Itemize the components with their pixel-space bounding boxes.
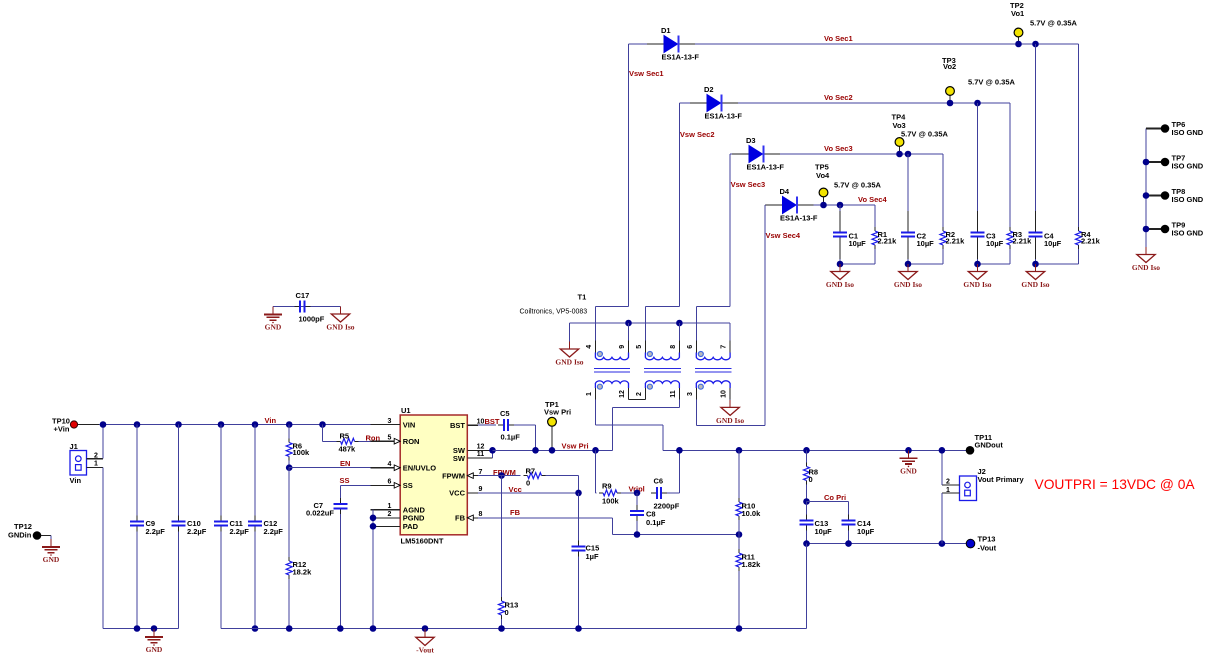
wire -Vout bottom row <box>807 543 967 545</box>
resistor R5 487k <box>319 421 326 428</box>
testpoint TP6 ISO GND <box>1161 124 1170 133</box>
svg-text:Vo Sec2: Vo Sec2 <box>824 93 853 102</box>
testpoint TP10 +Vin <box>70 421 77 428</box>
capacitor C1 10uF <box>837 202 844 209</box>
svg-text:SW: SW <box>453 454 466 463</box>
svg-text:2.2µF: 2.2µF <box>146 527 166 536</box>
svg-text:10µF: 10µF <box>917 239 935 248</box>
transformer core <box>594 368 630 370</box>
svg-text:FB: FB <box>510 508 521 517</box>
wire output bottom <box>1036 263 1079 265</box>
wire J1 pin1 to GND rail <box>87 466 104 468</box>
wire SS <box>340 484 370 486</box>
testpoint TP8 ISO GND <box>1146 195 1161 197</box>
svg-text:Vsw Sec3: Vsw Sec3 <box>731 180 766 189</box>
svg-text:1: 1 <box>94 460 98 467</box>
svg-text:2.21k: 2.21k <box>1081 237 1101 246</box>
transformer core <box>695 368 732 370</box>
svg-text:Ron: Ron <box>366 434 381 443</box>
svg-text:10µF: 10µF <box>815 527 833 536</box>
testpoint TP5 Vo4 <box>823 197 825 206</box>
resistor R13 0 <box>501 476 503 597</box>
svg-text:8: 8 <box>670 345 677 349</box>
testpoint TP4 Vo3 <box>899 146 901 154</box>
svg-text:2200pF: 2200pF <box>654 501 680 510</box>
capacitor C5 0.1uF BST <box>478 424 496 426</box>
svg-text:Vin: Vin <box>265 416 277 425</box>
svg-text:18.2k: 18.2k <box>293 568 313 577</box>
pin PAD PAD <box>371 525 401 527</box>
svg-text:C17: C17 <box>296 291 310 300</box>
svg-text:T1: T1 <box>578 293 587 302</box>
ground GND input <box>151 625 158 632</box>
svg-text:1µF: 1µF <box>586 552 599 561</box>
capacitor C4 10uF <box>1032 41 1039 48</box>
wire pin8 rail <box>678 323 680 341</box>
pin 8 FB <box>467 517 478 519</box>
svg-text:1.82k: 1.82k <box>742 560 762 569</box>
wire step Vsw Sec2 to pin5 <box>645 305 679 307</box>
svg-text:0.1µF: 0.1µF <box>501 432 521 441</box>
resistor R10 10.0k <box>736 447 743 454</box>
svg-text:Vo1: Vo1 <box>1011 9 1024 18</box>
svg-text:Vo Sec1: Vo Sec1 <box>824 34 853 43</box>
pin 2 PGND <box>371 517 401 519</box>
svg-text:R7: R7 <box>526 466 536 475</box>
wire Vo Sec4 horizontal <box>764 204 767 206</box>
wire Vo Sec1 horizontal <box>629 43 648 45</box>
svg-text:2.21k: 2.21k <box>946 237 966 246</box>
ground GND Iso <box>839 264 841 272</box>
wire AGND PGND PAD to rail <box>372 510 374 629</box>
svg-text:GND: GND <box>43 555 60 564</box>
wire pin9 rail <box>628 323 630 341</box>
svg-text:Vo Sec3: Vo Sec3 <box>824 144 853 153</box>
pin 10 BST <box>467 424 478 426</box>
svg-text:12: 12 <box>619 390 626 398</box>
testpoint TP7 ISO GND <box>1146 161 1161 163</box>
pin 12 SW <box>467 449 478 451</box>
wire C17 link <box>273 306 341 308</box>
capacitor C9 2.2uF <box>134 421 141 428</box>
svg-text:10.0k: 10.0k <box>742 509 762 518</box>
wire SW pins join <box>478 449 493 451</box>
wire output bottom <box>840 263 875 265</box>
svg-text:GND Iso: GND Iso <box>555 358 583 367</box>
testpoint TP11 GNDout <box>966 446 975 455</box>
ground GND Iso transformer left <box>569 323 571 342</box>
svg-text:TP13: TP13 <box>978 534 996 543</box>
svg-text:10µF: 10µF <box>1044 239 1062 248</box>
svg-text:ISO GND: ISO GND <box>1172 195 1204 204</box>
ground GND Iso <box>977 264 979 272</box>
diode D4 <box>783 197 797 214</box>
svg-text:12: 12 <box>477 444 485 451</box>
svg-text:0.022uF: 0.022uF <box>306 508 334 517</box>
ground GND Iso chain <box>1145 247 1147 255</box>
wire Vsw Pri <box>493 449 613 451</box>
ground GND Iso <box>1035 264 1037 272</box>
svg-text:10µF: 10µF <box>849 239 867 248</box>
wire Vsw Sec4 vertical <box>764 205 766 425</box>
diode D3 <box>749 146 763 163</box>
wire pin3 to Vsw Sec4 <box>695 399 697 425</box>
resistor R2 2.21k <box>942 154 944 227</box>
wire output bottom <box>908 263 943 265</box>
svg-text:RON: RON <box>403 437 420 446</box>
winding T1 bottom 2-11 <box>644 388 646 400</box>
svg-text:Co Pri: Co Pri <box>824 493 846 502</box>
svg-text:-Vout: -Vout <box>416 645 434 654</box>
svg-text:GND Iso: GND Iso <box>826 280 854 289</box>
svg-text:5: 5 <box>636 345 643 349</box>
svg-text:3: 3 <box>388 418 392 425</box>
winding T1 top 5-8 <box>644 341 646 354</box>
svg-text:PAD: PAD <box>403 522 419 531</box>
wire pin11 to Vsw Pri <box>678 399 680 407</box>
svg-text:GND Iso: GND Iso <box>716 416 744 425</box>
svg-text:4: 4 <box>586 345 593 349</box>
svg-text:2: 2 <box>636 392 643 396</box>
svg-text:VOUTPRI = 13VDC @ 0A: VOUTPRI = 13VDC @ 0A <box>1035 477 1196 492</box>
svg-text:-Vout: -Vout <box>978 543 997 552</box>
svg-text:GNDout: GNDout <box>975 441 1004 450</box>
capacitor C11 2.2uF <box>218 421 225 428</box>
resistor R11 1.82k <box>738 535 740 550</box>
svg-text:6: 6 <box>687 345 694 349</box>
svg-text:3: 3 <box>687 392 694 396</box>
svg-text:ES1A-13-F: ES1A-13-F <box>705 112 743 121</box>
svg-text:Vsw Sec4: Vsw Sec4 <box>766 231 801 240</box>
svg-text:ISO GND: ISO GND <box>1172 128 1204 137</box>
wire J2 pin2 to GNDout <box>942 484 960 486</box>
testpoint TP9 ISO GND <box>1146 228 1161 230</box>
svg-text:Vout Primary: Vout Primary <box>978 475 1025 484</box>
ground GND Iso right of C17 <box>340 307 342 315</box>
wire -Vout rail <box>221 628 807 630</box>
capacitor C15 1uF <box>578 493 580 541</box>
resistor R12 18.2k <box>288 468 290 557</box>
pin 6 SS <box>371 484 401 486</box>
svg-text:2.21k: 2.21k <box>1013 237 1033 246</box>
svg-text:FB: FB <box>455 514 466 523</box>
svg-text:1: 1 <box>388 503 392 510</box>
wire step Vsw Sec3 to pin6 <box>696 305 730 307</box>
svg-text:Vsw Sec1: Vsw Sec1 <box>629 69 664 78</box>
wire J2 pin1 to -Vout <box>942 492 960 494</box>
svg-text:D1: D1 <box>661 26 671 35</box>
resistor R1 2.21k <box>874 205 876 227</box>
svg-text:Vo4: Vo4 <box>816 171 830 180</box>
svg-text:LM5160DNT: LM5160DNT <box>401 536 444 545</box>
testpoint TP3 Vo2 <box>949 95 951 103</box>
wire Vin rail <box>78 424 99 426</box>
testpoint TP12 GNDin <box>33 531 42 540</box>
svg-text:VCC: VCC <box>449 489 465 498</box>
capacitor C2 10uF <box>905 151 912 158</box>
wire pin1 to GNDout <box>594 399 596 425</box>
svg-text:5.7V @ 0.35A: 5.7V @ 0.35A <box>901 130 949 139</box>
testpoint TP2 Vo1 <box>1018 37 1020 45</box>
op-amp U1 LM5160DNT body <box>400 415 467 535</box>
wire ISO GND chain vertical <box>1145 129 1147 248</box>
svg-text:5.7V @ 0.35A: 5.7V @ 0.35A <box>1030 19 1078 28</box>
wire Vo Sec2 horizontal <box>679 102 690 104</box>
pin 7 FPWM <box>467 475 478 477</box>
wire EN <box>286 464 293 471</box>
svg-text:ISO GND: ISO GND <box>1172 162 1204 171</box>
svg-text:487k: 487k <box>339 444 357 453</box>
svg-text:10µF: 10µF <box>857 527 875 536</box>
svg-text:R5: R5 <box>340 431 350 440</box>
svg-text:SS: SS <box>403 481 413 490</box>
svg-text:5: 5 <box>388 434 392 441</box>
svg-text:Vin: Vin <box>70 476 82 485</box>
svg-text:100k: 100k <box>602 496 620 505</box>
pin 3 VIN <box>371 424 401 426</box>
wire GND rail input <box>103 628 179 630</box>
transformer core <box>644 368 681 370</box>
svg-text:10µF: 10µF <box>986 239 1004 248</box>
capacitor C8 0.1uF <box>636 493 638 505</box>
pin 1 AGND <box>371 509 401 511</box>
capacitor C10 2.2uF <box>175 421 182 428</box>
svg-text:0: 0 <box>809 475 813 484</box>
svg-text:ES1A-13-F: ES1A-13-F <box>747 163 785 172</box>
winding T1 bottom 1-12 <box>594 388 596 400</box>
capacitor C17 1000pF <box>294 306 300 308</box>
svg-text:R9: R9 <box>602 481 612 490</box>
capacitor C13 10uF <box>806 502 808 515</box>
svg-text:Vo Sec4: Vo Sec4 <box>858 195 887 204</box>
svg-text:+Vin: +Vin <box>54 424 70 433</box>
svg-text:ES1A-13-F: ES1A-13-F <box>780 214 818 223</box>
svg-text:9: 9 <box>479 486 483 493</box>
wire Vo Sec3 horizontal <box>730 153 732 155</box>
svg-text:11: 11 <box>670 390 677 398</box>
wire Vsw Sec2 vertical <box>678 103 680 306</box>
connector J1 <box>70 451 87 476</box>
resistor R4 2.21k <box>1078 44 1080 227</box>
svg-text:1: 1 <box>586 392 593 396</box>
wire pin12 to pin2 series link <box>628 398 630 400</box>
svg-text:BST: BST <box>485 417 500 426</box>
svg-text:GND Iso: GND Iso <box>326 323 354 332</box>
svg-text:10: 10 <box>477 418 485 425</box>
svg-text:GND: GND <box>146 645 163 654</box>
diode D1 <box>664 36 678 53</box>
svg-text:GND Iso: GND Iso <box>894 280 922 289</box>
capacitor C12 2.2uF <box>252 421 259 428</box>
svg-text:10: 10 <box>721 390 728 398</box>
ground GND near TP11 <box>905 447 912 454</box>
svg-text:8: 8 <box>479 511 483 518</box>
wire step Vsw Sec1 to pin4 <box>595 305 628 307</box>
resistor R6 100k <box>286 421 293 428</box>
svg-text:2: 2 <box>388 511 392 518</box>
winding T1 bottom 3-10 <box>695 388 697 400</box>
svg-text:7: 7 <box>479 469 483 476</box>
connector J2 Vout Primary <box>960 476 977 501</box>
wire GNDout <box>663 449 966 451</box>
svg-text:GND: GND <box>265 323 282 332</box>
svg-text:9: 9 <box>619 345 626 349</box>
testpoint TP13 -Vout <box>966 539 975 548</box>
svg-text:C5: C5 <box>500 409 510 418</box>
resistor R8 0 <box>803 447 810 454</box>
wire GND Iso bus pins 9 8 7 <box>570 322 731 324</box>
svg-text:D4: D4 <box>780 187 790 196</box>
svg-text:C6: C6 <box>654 477 664 486</box>
wire J1 pin2 to Vin <box>87 458 104 460</box>
wire output bottom <box>978 263 1011 265</box>
svg-text:Coiltronics, VP5-0083: Coiltronics, VP5-0083 <box>520 309 588 316</box>
wire Vsw Sec1 vertical <box>628 44 630 306</box>
wire VCC <box>478 492 579 494</box>
svg-text:EN: EN <box>340 459 350 468</box>
ground GND Iso <box>907 264 909 272</box>
winding T1 top 6-7 <box>695 341 697 354</box>
svg-text:GND: GND <box>900 466 917 475</box>
svg-text:2.21k: 2.21k <box>878 237 898 246</box>
svg-text:6: 6 <box>388 479 392 486</box>
svg-text:0: 0 <box>505 608 509 617</box>
svg-text:ES1A-13-F: ES1A-13-F <box>662 53 700 62</box>
capacitor C3 10uF <box>974 100 981 107</box>
svg-text:2.2µF: 2.2µF <box>230 527 250 536</box>
svg-text:5.7V @ 0.35A: 5.7V @ 0.35A <box>968 78 1016 87</box>
svg-text:0.1µF: 0.1µF <box>646 518 666 527</box>
capacitor C6 2200pF <box>651 492 657 494</box>
svg-text:Vsw Pri: Vsw Pri <box>544 407 571 416</box>
capacitor C14 10uF <box>848 502 850 515</box>
wire Vsw Sec3 vertical <box>729 154 731 306</box>
svg-text:VIN: VIN <box>403 420 416 429</box>
svg-text:11: 11 <box>477 451 485 458</box>
testpoint TP1 Vsw Pri <box>551 426 553 450</box>
svg-text:Vo2: Vo2 <box>943 62 956 71</box>
svg-text:GND Iso: GND Iso <box>1021 280 1049 289</box>
net label Co Pri <box>803 498 810 505</box>
svg-text:2.2µF: 2.2µF <box>264 527 284 536</box>
svg-text:D3: D3 <box>746 136 756 145</box>
diode D2 <box>707 95 721 112</box>
pin 4 EN/UVLO <box>371 467 401 469</box>
pin 9 VCC <box>467 492 478 494</box>
wire FB <box>478 517 612 519</box>
svg-text:Vcc: Vcc <box>509 485 522 494</box>
svg-text:1000pF: 1000pF <box>299 315 325 324</box>
svg-text:0: 0 <box>526 479 530 488</box>
wire FPWM R7 <box>478 475 496 477</box>
ground GND left of C17 <box>272 307 274 315</box>
svg-text:Vsw Sec2: Vsw Sec2 <box>680 130 715 139</box>
power -Vout symbol <box>422 625 429 632</box>
svg-text:ISO GND: ISO GND <box>1172 229 1204 238</box>
svg-text:7: 7 <box>721 345 728 349</box>
resistor R3 2.21k <box>1009 103 1011 227</box>
svg-text:D2: D2 <box>704 85 714 94</box>
svg-text:2.2µF: 2.2µF <box>187 527 207 536</box>
resistor R9 100k <box>595 450 597 493</box>
svg-text:GNDin: GNDin <box>8 530 32 539</box>
svg-text:EN/UVLO: EN/UVLO <box>403 464 437 473</box>
svg-text:U1: U1 <box>401 406 411 415</box>
pin 11 SW <box>467 457 478 459</box>
svg-text:4: 4 <box>388 461 392 468</box>
winding T1 top 4-9 <box>594 341 596 354</box>
svg-text:BST: BST <box>450 421 465 430</box>
svg-text:GND Iso: GND Iso <box>1132 263 1160 272</box>
svg-text:SS: SS <box>340 476 350 485</box>
capacitor C7 0.022uF <box>339 498 341 504</box>
svg-text:5.7V @ 0.35A: 5.7V @ 0.35A <box>834 181 882 190</box>
svg-text:FPWM: FPWM <box>442 471 465 480</box>
svg-text:GND Iso: GND Iso <box>963 280 991 289</box>
wire pin7 rail <box>729 323 731 341</box>
svg-text:100k: 100k <box>293 448 311 457</box>
svg-text:J1: J1 <box>70 442 78 451</box>
pin 5 RON <box>371 440 401 442</box>
ground GND Iso pin10 <box>729 399 731 400</box>
svg-text:Vsw Pri: Vsw Pri <box>562 442 589 451</box>
